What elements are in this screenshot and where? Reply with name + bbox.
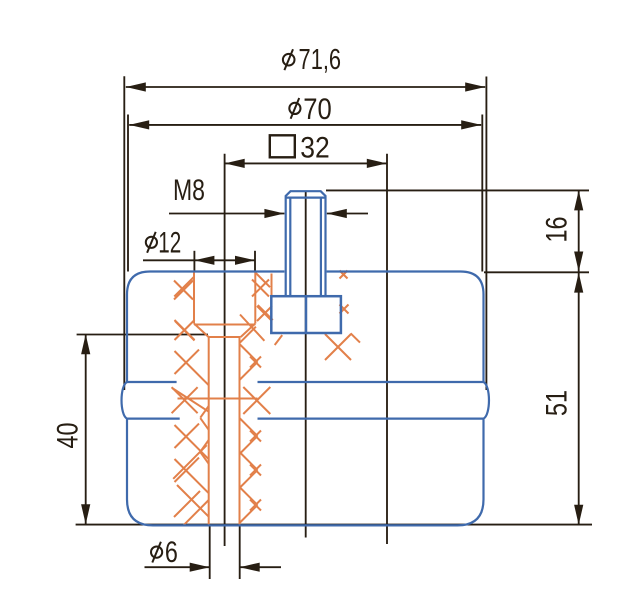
hatch long line cb corner [240,315,264,341]
hatch X right mid [243,387,270,414]
hatch line to bottom left [184,500,209,525]
hatch cross cb corner [240,327,256,343]
extension line 16 top [326,189,589,191]
extension line 16 bottom / 51 top [484,271,589,273]
dimension sq32 [225,162,387,164]
hatch line below flange left [275,335,283,345]
hatch X left top 1 [174,281,193,300]
svg-text:71,6: 71,6 [299,43,342,75]
flange (metal insert) [271,296,341,333]
rubber section: chamfer right [241,324,256,338]
extension line 40 top [77,334,208,336]
hatch cross left c [175,424,200,448]
label dia12 [146,237,157,248]
extension line dia12 right [254,251,256,272]
svg-text:51: 51 [541,390,574,416]
rubber section: dia6 hole top [209,336,241,338]
hatch chevron on dia6 left wall lower [200,452,208,464]
dimension M8 [169,213,284,215]
hatch line [175,321,195,341]
hatch chevron upper right e [240,487,258,505]
extension line dia12 left [193,251,195,272]
extension line sq32 left / hole centerline [224,154,226,546]
label dia71,6 [283,54,295,66]
hatch long line left mid [172,388,209,412]
flange center split line [305,296,308,333]
extension line sq32 right [386,154,388,544]
rubber section: chamfer left [194,324,209,338]
hatch line [174,277,194,297]
stud M8 outline [286,191,326,296]
svg-text:40: 40 [52,423,85,449]
extension line bottom shared 40/51 [76,524,592,526]
hatch x tick top right of flange [340,271,348,279]
stud chamfer line [286,197,326,199]
body groove upper line left [127,381,177,383]
hatch X right top 2 [257,306,272,321]
hatch chevron upper right d [240,452,258,470]
hatch chevron lower right a [240,362,258,380]
dimension dia71.6 [126,86,485,88]
hatch chevron lower right d [240,470,258,488]
hatch x tick right a [250,357,261,368]
hatch x tick right c [250,431,261,442]
hatch X left mid [172,387,198,413]
body groove lower line right [258,418,484,420]
dimension 51 [578,273,580,525]
hatch chevron on dia6 left wall upper [200,440,208,452]
hatch chevron lower right e [240,505,258,523]
hatch long line left a [175,351,209,385]
hatch x tick right of flange [340,305,349,314]
rubber section: mid parting line [178,398,258,400]
hatch chevron lower right c [240,436,258,454]
hatch chevron2 on dia6 left wall lower [200,418,208,430]
dimension dia12 [143,259,255,261]
hatch X below flange right [325,334,351,360]
extension line dia71.6 right [485,77,487,391]
stud thread root right [320,198,322,297]
hatch cross left f [174,491,200,517]
hatch cross left a [175,350,200,374]
extension line dia71.6 left [123,76,125,390]
label sq32 [270,135,295,157]
label dia70 [289,103,300,114]
svg-text:70: 70 [303,93,332,126]
svg-text:M8: M8 [173,174,205,207]
hatch cross left d [175,458,200,482]
hatch line below flange far right [351,333,360,342]
extension line dia70 right [481,115,483,272]
hatch x tick right e [250,500,261,511]
hatch chevron upper right c [240,418,258,436]
extension line dia6 right [239,526,241,579]
hatch chevron2 on dia6 left wall upper [200,406,208,418]
hatch x tick right d [250,465,261,476]
extension line dia6 left [209,526,211,579]
hatch X left top 2 [175,320,195,340]
svg-text:12: 12 [158,227,181,260]
body groove lower line left [127,418,180,420]
hatch long line left f [177,485,209,517]
hatch long line left d [175,459,209,493]
stud thread root left [289,198,291,297]
hatch line right [258,305,273,320]
rubber section: bore dia12 right wall [254,272,256,324]
body groove upper line right [258,381,484,383]
label dia6 [151,547,162,558]
svg-text:16: 16 [541,217,574,243]
extension line dia70 left [127,115,129,272]
rubber section: counterbore bottom [194,324,255,326]
rubber body outline [122,272,489,526]
svg-text:6: 6 [165,536,178,569]
rubber section: dia6 hole left wall [208,337,210,525]
dimension 40 [85,334,87,524]
hatch chevron upper right a [240,344,258,362]
dimension dia6 [145,566,210,568]
stud centerline [305,192,307,538]
dimension 16 [578,190,580,271]
hatch long line left e [173,445,207,479]
svg-text:32: 32 [300,132,330,165]
hatch long line left c [175,425,209,459]
rubber section: dia6 hole right wall [239,337,241,525]
dimension dia70 [129,124,481,126]
rubber section: bore dia12 left wall [193,272,195,324]
hatch line right top [255,273,270,288]
hatch X right top 1 [252,280,269,297]
rubber section: pocket wall left of flange [271,274,273,296]
